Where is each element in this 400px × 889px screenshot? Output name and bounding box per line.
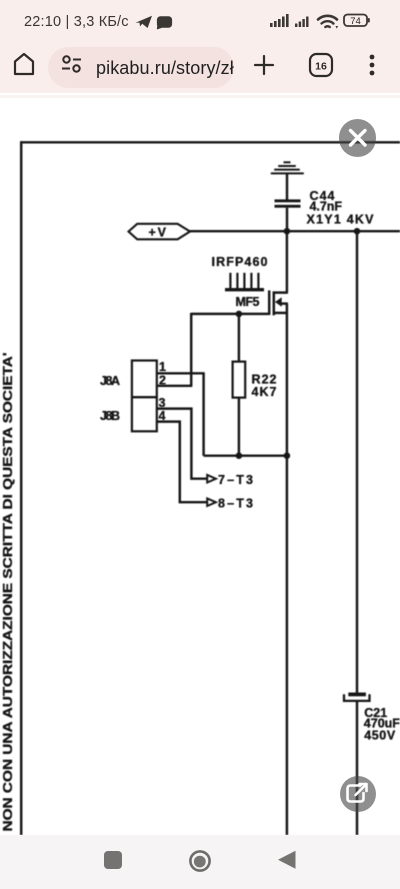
earth ground [271, 162, 304, 173]
wire pin 3 [157, 409, 207, 479]
svg-text:1: 1 [159, 360, 166, 374]
+V rail wire [190, 230, 400, 232]
connector J8 divider [132, 396, 157, 398]
resistor R22 [233, 362, 246, 398]
plus (new tab) icon [255, 56, 273, 74]
wire pin 4 [157, 422, 207, 503]
telegram icon [136, 16, 153, 28]
arrow 8-T3 [207, 498, 216, 506]
svg-text:IRFP460: IRFP460 [212, 255, 268, 269]
source rail wire [204, 454, 287, 456]
svg-text:7–T3: 7–T3 [218, 473, 253, 487]
close button overlay [339, 119, 376, 156]
svg-text:4.7nF: 4.7nF [310, 199, 343, 213]
signal bars 1 [270, 14, 289, 27]
tab counter box [310, 54, 332, 76]
svg-text:+V: +V [149, 226, 167, 240]
border frame top [20, 141, 400, 143]
svg-text:J8B: J8B [100, 409, 120, 423]
wire C44 to +V rail [286, 208, 288, 232]
wire R22 to source rail [238, 398, 240, 456]
capacitor C21 positive plate [348, 693, 366, 697]
node: C21 branch junction on +V rail [354, 228, 361, 235]
android navigation bar [0, 835, 400, 889]
battery with 74 [344, 15, 370, 28]
wire C21 down to bottom [356, 701, 358, 835]
tune / site settings icon [62, 56, 81, 71]
back triangle [278, 851, 296, 869]
capacitor C21 negative bracket [344, 694, 370, 701]
border frame left [20, 141, 22, 835]
heatsink symbol [225, 273, 264, 290]
svg-text:74: 74 [350, 16, 361, 27]
status bar [0, 0, 400, 38]
open-in-new icon [348, 784, 367, 802]
wire +V branch down to C21 [356, 231, 358, 694]
wire +V rail down to MOSFET drain [286, 231, 288, 292]
body lead [281, 302, 288, 305]
wire MOSFET source down [286, 304, 288, 456]
svg-text:2: 2 [159, 373, 166, 387]
wire pin 1 [157, 372, 205, 374]
+V net flag [129, 224, 191, 240]
wifi traffic arrows [332, 22, 338, 29]
arrow 7-T3 [207, 475, 216, 483]
svg-text:16: 16 [315, 61, 327, 73]
source lead [273, 312, 288, 315]
svg-text:NON CON UNA AUTORIZZAZIONE SCR: NON CON UNA AUTORIZZAZIONE SCRITTA DI QU… [1, 352, 15, 831]
wire gate junction down to R22 [238, 314, 240, 362]
chat bubble icon [157, 16, 172, 29]
wire ground to C44 [286, 173, 288, 199]
svg-text:8–T3: 8–T3 [218, 497, 253, 511]
body arrow [275, 297, 282, 307]
node: gate/R22 junction [236, 311, 243, 318]
signal bars 2 [295, 17, 309, 28]
home icon [15, 54, 33, 74]
gate bar [268, 290, 270, 315]
wire pins 1-2 vertical to gate [190, 313, 192, 386]
kebab menu icon [370, 55, 375, 76]
wire pin row down to source rail [202, 373, 204, 455]
close X glyph [351, 131, 366, 146]
home circle [190, 851, 209, 870]
node: MOSFET source on rail [284, 452, 291, 459]
expand button overlay [340, 776, 376, 812]
node: drain junction on +V rail [284, 228, 291, 235]
transistor Q1 MOSFET body [269, 290, 288, 315]
wire gate lead [191, 313, 269, 315]
wire source rail down to bottom [286, 456, 288, 835]
svg-text:4K7: 4K7 [252, 385, 277, 399]
wire pin 2 [157, 385, 193, 387]
svg-text:X1Y1 4KV: X1Y1 4KV [307, 213, 375, 227]
svg-text:4: 4 [159, 409, 166, 423]
drain lead [273, 291, 288, 294]
svg-text:MF5: MF5 [236, 295, 260, 309]
channel bar [273, 291, 276, 315]
wifi icon [318, 16, 337, 27]
svg-text:450V: 450V [364, 729, 396, 743]
capacitor C44 [275, 199, 301, 207]
connector J8 box [132, 361, 157, 432]
node: R22 on source rail [236, 452, 243, 459]
recent apps square [104, 851, 122, 869]
browser toolbar [0, 38, 400, 93]
svg-text:J8A: J8A [100, 374, 120, 388]
